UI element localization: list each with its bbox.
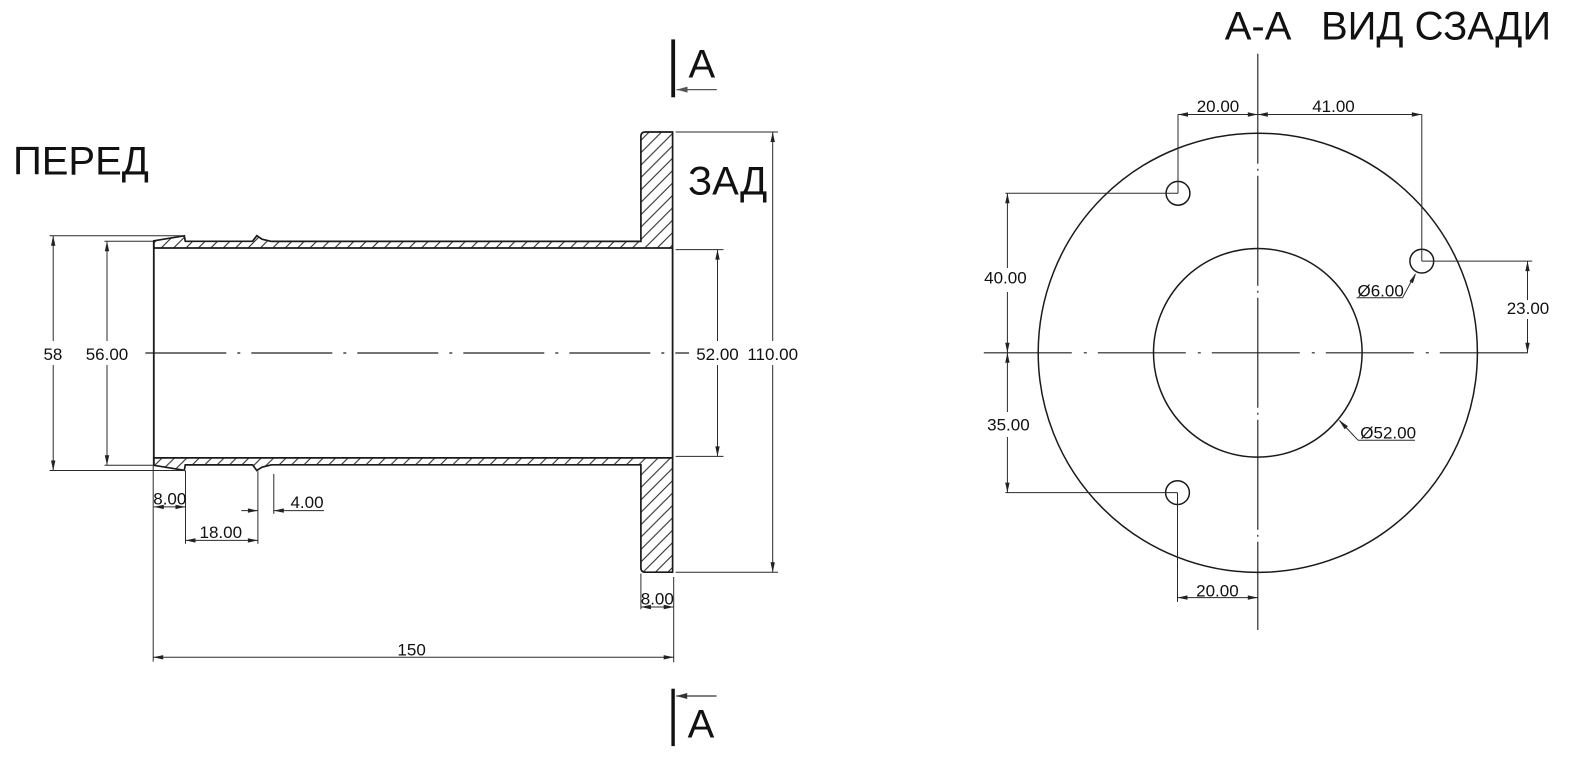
svg-text:ЗАД: ЗАД xyxy=(688,159,767,203)
svg-text:35.00: 35.00 xyxy=(987,416,1030,435)
svg-text:ВИД СЗАДИ: ВИД СЗАДИ xyxy=(1321,5,1551,49)
svg-text:А-А: А-А xyxy=(1225,5,1292,49)
svg-text:58: 58 xyxy=(43,345,62,364)
svg-text:ПЕРЕД: ПЕРЕД xyxy=(13,140,149,184)
svg-text:8.00: 8.00 xyxy=(153,490,186,509)
svg-text:A: A xyxy=(688,703,715,747)
svg-text:A: A xyxy=(689,43,716,87)
svg-text:41.00: 41.00 xyxy=(1312,97,1355,116)
svg-text:8.00: 8.00 xyxy=(641,590,674,609)
svg-text:20.00: 20.00 xyxy=(1196,582,1239,601)
svg-text:56.00: 56.00 xyxy=(86,345,129,364)
svg-text:20.00: 20.00 xyxy=(1197,97,1240,116)
svg-text:52.00: 52.00 xyxy=(696,345,739,364)
svg-text:110.00: 110.00 xyxy=(747,345,798,364)
svg-text:18.00: 18.00 xyxy=(200,523,243,542)
svg-text:150: 150 xyxy=(397,640,425,659)
svg-text:40.00: 40.00 xyxy=(984,269,1027,288)
svg-text:Ø52.00: Ø52.00 xyxy=(1360,423,1416,442)
svg-text:4.00: 4.00 xyxy=(290,493,323,512)
svg-text:23.00: 23.00 xyxy=(1507,299,1550,318)
